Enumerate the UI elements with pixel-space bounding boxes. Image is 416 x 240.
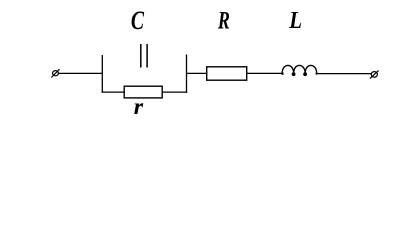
node A (left junction stub of parallel C / r section) xyxy=(101,55,103,93)
svg-text:L: L xyxy=(288,7,302,34)
wire (node A down-branch to resistor r) xyxy=(102,91,125,93)
node B (right junction stub of parallel C / r section) xyxy=(186,55,188,93)
svg-text:r: r xyxy=(134,95,144,120)
inductor L (three-hump coil) xyxy=(282,65,317,74)
wire (node B to resistor R) xyxy=(187,72,208,74)
wire (resistor R to inductor L) xyxy=(247,72,283,74)
resistor R (box) xyxy=(207,67,247,80)
terminal T1 (left input terminal, slashed circle) xyxy=(51,69,59,77)
resistor r (box) xyxy=(124,86,162,98)
wire (inductor L to right terminal) xyxy=(317,73,372,75)
svg-text:C: C xyxy=(131,6,145,35)
terminal T2 (right output terminal, slashed circle) xyxy=(370,70,379,78)
capacitor C (plates) xyxy=(141,44,147,68)
wire (resistor r to node B) xyxy=(162,91,187,93)
svg-text:R: R xyxy=(217,5,230,34)
wire (left terminal to node A) xyxy=(58,72,103,74)
